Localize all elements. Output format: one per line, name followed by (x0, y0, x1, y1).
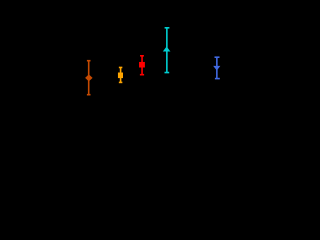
marker: square series 2 (118, 73, 123, 79)
errorbar series 4 (cyan triangle up) (163, 28, 171, 73)
wire: vertical error bar line series 4 (166, 28, 168, 73)
wire: vertical error bar line series 3 (141, 56, 143, 75)
bottom cap series 3 (140, 74, 144, 76)
marker: square series 3 (139, 62, 145, 68)
top cap series 4 (165, 27, 170, 29)
top cap series 1 (87, 60, 91, 62)
bottom cap series 2 (119, 81, 123, 83)
marker: triangle down series 5 (213, 66, 220, 71)
wire: vertical error bar line series 1 (88, 61, 90, 95)
top cap series 3 (140, 55, 144, 57)
top cap series 2 (119, 66, 123, 68)
bottom cap series 1 (87, 94, 91, 96)
wire: vertical error bar line series 2 (120, 67, 122, 82)
bottom cap series 5 (215, 78, 220, 80)
errorbar series 5 (royal blue triangle down) (213, 57, 220, 78)
errorbar series 2 (orange square) (118, 67, 123, 82)
bottom cap series 4 (165, 72, 170, 74)
errorbar series 1 (chocolate diamond) (85, 61, 93, 95)
marker: diamond series 1 (85, 74, 93, 81)
wire: vertical error bar line series 5 (216, 57, 218, 78)
marker: triangle up series 4 (163, 46, 171, 51)
top cap series 5 (215, 56, 220, 58)
errorbar series 3 (red square) (139, 56, 145, 75)
